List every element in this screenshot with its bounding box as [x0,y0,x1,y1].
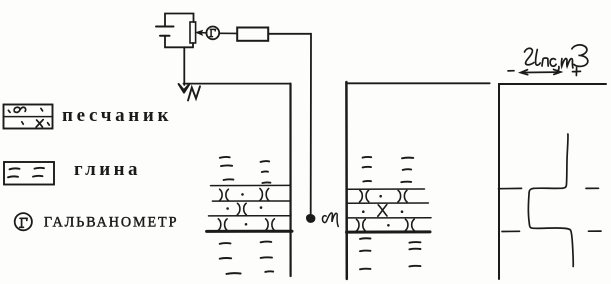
resistor R2 [237,28,268,41]
electrode M dot [306,214,314,222]
legend galvanometer symbol [15,213,32,230]
clay dashes right block lower [360,238,421,269]
wire resistor to electrode M [268,34,311,215]
dashed boundary line top of layer in SP track [499,187,599,189]
label N [188,86,200,100]
SP track frame [499,84,606,279]
wire to electrode N [183,47,185,85]
SP curve [528,134,573,267]
clay dashes right block upper [363,157,414,182]
legend clay box [4,162,54,185]
clay dashes left block upper [220,157,271,183]
galvanometer G [206,27,219,40]
battery B1 [156,27,174,36]
dashed boundary line bottom of layer in SP track [502,230,601,232]
potentiometer R1 [190,22,196,43]
ground surface line right [346,82,489,84]
svg-text:песчаник: песчаник [62,105,169,126]
borehole right wall [345,82,348,279]
legend sandstone box [4,105,53,129]
sandstone marks left block [218,189,275,231]
sandstone marks right block [356,190,414,231]
sandstone layer lines right block [347,189,432,218]
borehole left wall [289,84,291,276]
label M [322,213,338,227]
wire battery bottom to potentiometer bottom [165,36,193,48]
sandstone layer lines left block [209,185,292,216]
electrode N arrow [179,84,190,93]
wire galvanometer to resistor [219,32,237,34]
wire battery top to potentiometer top [165,14,194,27]
label Upc mV handwritten [525,45,588,71]
clay dashes left block lower [220,242,274,274]
scale arrow with minus and plus [508,68,581,76]
wiper arrow [196,31,207,35]
ground surface line left [184,83,291,85]
